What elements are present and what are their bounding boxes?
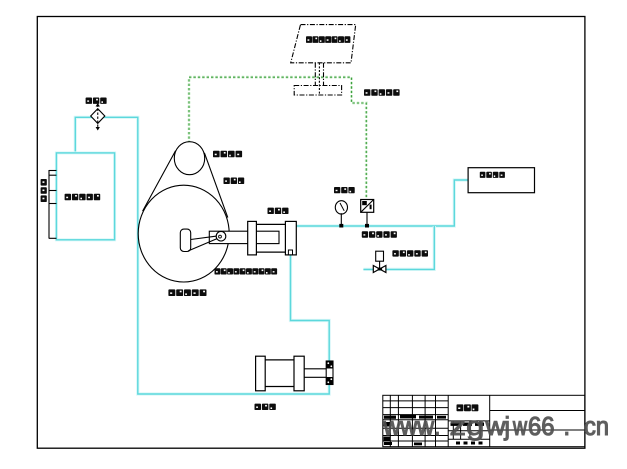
shutoff valve actuator [376,251,384,261]
flywheel (large) [138,185,229,282]
wire green signal: servo motor to monitor and sensor [189,77,366,199]
cylinder port notch [288,250,292,255]
label: servo motor [213,151,242,158]
label: level gauge (vertical) [41,179,47,202]
cylinder right cap [285,221,296,255]
wire cyan pipe: cylinder outlet to test object [296,180,468,226]
filter symbol [91,105,105,129]
cylinder left flange [248,221,257,255]
crank counterweight [180,229,190,251]
label: test object [480,172,505,178]
connecting rod [191,236,218,240]
title block [383,395,585,446]
monitor screen [291,25,356,95]
label: servo driver [364,89,400,96]
belt left side [143,151,176,212]
pressure transducer [361,200,374,213]
belt right side [204,153,227,218]
water tank (stainless steel) [56,153,114,240]
label: tank text [65,194,101,201]
label: high pressure gauge [334,187,355,193]
pump left cap [256,356,266,391]
label: schematic title [457,404,479,411]
test object box [468,168,534,193]
label: crank linkage mechanism [215,268,278,274]
pressure gauge [335,201,347,214]
watermark [383,416,607,440]
pump connector block [326,361,333,385]
pump right flange [294,356,304,391]
pump body [265,359,294,361]
label: data acquisition system [306,36,350,43]
crank pin [216,231,226,241]
label: pump cylinder [268,208,289,214]
wire cyan pipe: tank-filter-pump loop [75,117,329,394]
cylinder body [256,223,285,225]
servo motor pulley (small) [174,142,204,175]
piston rod box [209,231,279,243]
monitor centerline [318,63,320,95]
label: constant speed wheel [168,289,206,296]
label: pressure sensor [362,231,397,237]
pump rod [304,368,326,370]
level gauge bracket [49,170,56,239]
valve body [373,266,379,273]
monitor base [294,86,341,96]
label: hp shutoff valve [392,250,428,256]
monitor neck [314,63,316,86]
label: filter [86,98,107,104]
wire cyan pipe: branch to shutoff valve [363,226,434,269]
label: belt pulley [224,178,245,185]
label: constant pressure pump [255,404,276,410]
